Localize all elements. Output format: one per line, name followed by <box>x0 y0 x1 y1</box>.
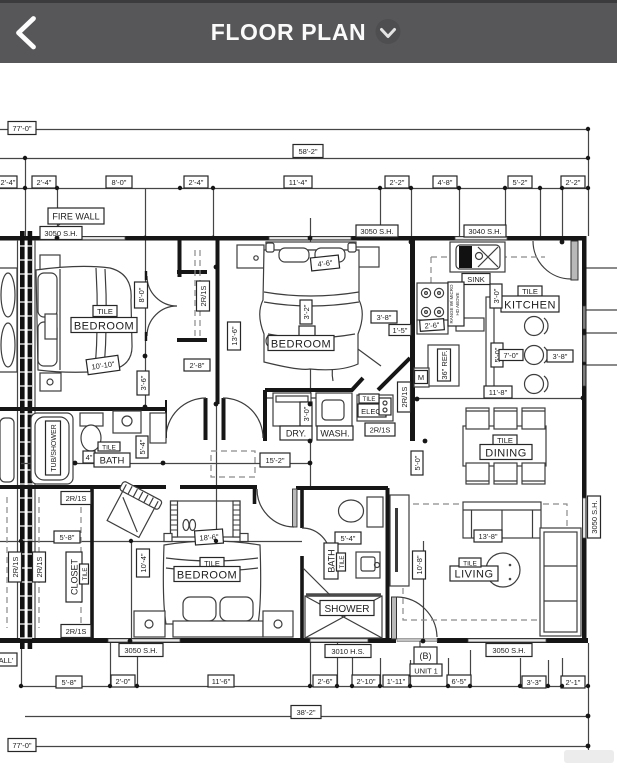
laundry counter <box>267 397 352 399</box>
svg-text:5'-2": 5'-2" <box>513 178 528 187</box>
label 58'-2" top <box>293 145 323 158</box>
svg-text:2R/1S: 2R/1S <box>370 426 391 435</box>
exterior wall right <box>582 236 587 643</box>
svg-text:3'-8": 3'-8" <box>377 313 392 322</box>
bottom dim chain <box>21 686 588 688</box>
bedroom2 bed body <box>260 250 363 370</box>
label 8'-0" vertical <box>135 282 148 308</box>
svg-text:11'-8": 11'-8" <box>489 388 508 397</box>
svg-text:3050 S.H.: 3050 S.H. <box>590 500 599 533</box>
bath1 vanity counter <box>113 411 141 433</box>
svg-text:TILE: TILE <box>102 445 116 452</box>
label 3050 S.H. top-center <box>356 225 398 237</box>
exterior wall bottom left of entry <box>0 638 396 643</box>
hall dashed rug <box>211 451 255 477</box>
label 5'-4" bath2 <box>335 532 361 544</box>
living TV console <box>390 495 409 586</box>
svg-text:BATH: BATH <box>100 456 125 467</box>
bottom drop lines <box>22 643 589 756</box>
label 3'-0" vertical kitchen <box>490 284 502 308</box>
bedroom3 nightstand right <box>263 611 293 637</box>
label 3050 S.H. bottom-right <box>486 644 532 657</box>
closet bedroom3 dashed <box>7 497 81 628</box>
bath1 door jambs <box>206 398 224 440</box>
svg-text:2R/1S: 2R/1S <box>199 286 208 307</box>
svg-text:36" REF.: 36" REF. <box>440 350 449 379</box>
label 5'-8" bottom <box>56 676 82 688</box>
label 13'-8" living <box>474 530 502 542</box>
svg-text:SINK: SINK <box>467 275 485 284</box>
label (B) UNIT 1 <box>410 641 442 676</box>
label CLOSET vertical <box>66 552 82 602</box>
living room tile dashed boundary <box>403 504 567 620</box>
svg-text:5'-8": 5'-8" <box>60 533 75 542</box>
svg-text:77'-0": 77'-0" <box>12 124 31 133</box>
svg-text:TILE: TILE <box>522 287 538 296</box>
window 3050 SH top-left <box>45 237 125 240</box>
dim chain row top <box>0 188 588 190</box>
entry door top right (kitchen) <box>571 241 578 280</box>
label 3'-6" vertical hall1 <box>137 371 149 395</box>
label 10'-8" vertical living <box>413 551 426 579</box>
label TILE bedroom3 <box>200 558 224 569</box>
svg-text:2'-4": 2'-4" <box>1 178 16 187</box>
wall bedroom2 / kitchen <box>410 240 415 441</box>
svg-text:2R/1S: 2R/1S <box>66 494 87 503</box>
svg-text:3'-3": 3'-3" <box>527 678 542 687</box>
label 10'-4" vertical bed3 <box>137 549 150 577</box>
back arrow icon <box>9 14 49 54</box>
svg-text:2'-10": 2'-10" <box>356 677 375 686</box>
svg-text:38'-2": 38'-2" <box>296 708 315 717</box>
label small box bed2 <box>299 326 315 336</box>
bedroom3 nightstand left <box>134 611 165 637</box>
right side tick lines <box>586 268 617 365</box>
label WASH. <box>317 426 353 440</box>
svg-text:CLOSET: CLOSET <box>70 558 80 595</box>
svg-text:3050 S.H.: 3050 S.H. <box>492 646 525 655</box>
bedroom1 nightstand bottom with lamp <box>40 373 61 391</box>
label BEDROOM 2 <box>268 336 334 351</box>
label 18'-6" bed3 <box>195 529 224 545</box>
label 2'-4" c <box>184 176 208 188</box>
svg-text:3'-0": 3'-0" <box>492 288 501 303</box>
label 5'-0" vertical island <box>491 343 503 367</box>
label 3050 S.H. right wall vertical <box>588 496 601 538</box>
svg-text:2R/1S: 2R/1S <box>11 557 20 578</box>
svg-text:UNIT 1: UNIT 1 <box>414 667 438 676</box>
kitchen counter dashed <box>431 257 545 332</box>
svg-text:4": 4" <box>86 453 93 462</box>
label 7'-0" <box>499 350 523 361</box>
svg-text:13'-6": 13'-6" <box>230 326 239 345</box>
bedroom1 nightstand top <box>40 255 60 270</box>
label SINK <box>462 274 490 285</box>
svg-text:BEDROOM: BEDROOM <box>74 321 134 333</box>
label 3'-8" bed2 <box>371 311 397 323</box>
label 11'-8" <box>484 386 512 398</box>
svg-text:ALL': ALL' <box>0 656 14 665</box>
dining chairs top <box>466 408 489 429</box>
label BATH 1 <box>94 453 130 467</box>
label 2R/1S closet3 bottom <box>61 625 91 638</box>
label 2'-6" bottom <box>313 675 337 687</box>
svg-text:2'-2": 2'-2" <box>566 178 581 187</box>
label 5'-8" closet <box>54 531 80 543</box>
label TUB/SHOWER vertical <box>46 421 61 475</box>
bedroom1 bed <box>36 266 132 372</box>
svg-text:8'-0": 8'-0" <box>112 178 127 187</box>
refrigerator <box>428 345 459 386</box>
label 6'-5" bottom <box>447 675 471 687</box>
svg-text:SHOWER: SHOWER <box>325 604 370 615</box>
bedroom2 corner door leaf and arc <box>332 341 381 381</box>
svg-text:TILE: TILE <box>463 561 477 568</box>
bedroom3 TV console <box>171 501 241 537</box>
closet bedroom3 right wall <box>90 489 94 638</box>
label 5'-0" vertical hall <box>411 451 423 475</box>
bedroom2 slippers <box>266 336 272 346</box>
living round table <box>486 553 520 587</box>
svg-text:1'-11": 1'-11" <box>387 677 406 686</box>
wall bedroom2 bottom / laundry top <box>265 378 363 390</box>
svg-text:3'-8": 3'-8" <box>553 352 568 361</box>
living loveseat <box>463 502 541 538</box>
label 38'-2" bottom <box>291 706 321 719</box>
kitchen range burners <box>417 283 448 321</box>
watermark bottom right <box>564 750 614 763</box>
label FIRE WALL with leader <box>44 208 104 237</box>
svg-text:4'-8": 4'-8" <box>438 178 453 187</box>
label KITCHEN <box>501 296 559 312</box>
label 77'-0" bottom <box>8 739 36 752</box>
svg-text:3010 H.S.: 3010 H.S. <box>331 647 364 656</box>
label 2R/1S vertical closet1 <box>197 281 210 311</box>
label TILE bedroom1 <box>93 306 117 317</box>
dim verticals inside plan <box>0 240 424 641</box>
svg-text:TILE: TILE <box>340 556 346 569</box>
kitchen island <box>486 297 494 387</box>
bath2 top wall <box>296 486 388 490</box>
shower pan with X <box>305 596 382 638</box>
kitchen sink counter <box>450 242 505 272</box>
bedroom2 headboard <box>266 242 356 250</box>
svg-text:3040 S.H.: 3040 S.H. <box>468 227 501 236</box>
elec panel <box>357 395 393 421</box>
label TILE living <box>459 558 481 568</box>
svg-text:2R/1S: 2R/1S <box>35 557 44 578</box>
label 2'-10" bottom <box>352 675 380 687</box>
bedroom3 pillows <box>183 597 216 621</box>
label 2R/1S vertical left <box>33 552 46 582</box>
svg-text:2'-4": 2'-4" <box>37 178 52 187</box>
svg-text:2'-0": 2'-0" <box>116 677 131 686</box>
svg-text:2'-1": 2'-1" <box>566 678 581 687</box>
label 3040 S.H. top-right <box>464 225 506 237</box>
label 2'-1" bottom <box>561 676 585 688</box>
kitchen / dining boundary line <box>415 398 583 400</box>
window 3040 SH top-right <box>455 237 507 240</box>
svg-text:(B): (B) <box>420 651 432 661</box>
bedroom2 side rails <box>266 243 274 252</box>
bedroom2 corner door jamb <box>378 358 410 390</box>
bedroom1 bench tray <box>45 314 57 339</box>
svg-text:HD ABOVE: HD ABOVE <box>455 292 460 315</box>
front entry door bottom (unit B) <box>392 597 397 639</box>
hall wall / bath1 bottom, bedroom3 top <box>0 485 166 489</box>
bedroom1 double door leaves <box>147 276 177 336</box>
svg-text:13'-8": 13'-8" <box>478 532 497 541</box>
bath2 right wall (living side) <box>386 488 390 641</box>
label 1'-11" bottom <box>383 675 409 687</box>
svg-text:5'-0": 5'-0" <box>413 455 422 470</box>
svg-text:KITCHEN: KITCHEN <box>504 300 556 312</box>
svg-text:6'-5": 6'-5" <box>452 677 467 686</box>
label 2'-6" kitchen <box>420 319 445 332</box>
svg-text:3'-0": 3'-0" <box>302 406 311 421</box>
bedroom3 chair (rotated) <box>104 481 163 540</box>
dim line 58'-2" top <box>0 158 588 160</box>
svg-text:58'-2": 58'-2" <box>298 147 317 156</box>
label RANGE vertical <box>448 282 464 326</box>
svg-text:3'-2": 3'-2" <box>302 304 311 319</box>
kitchen oven drawer <box>417 320 448 334</box>
bath1 tub <box>31 413 73 484</box>
label 11'-6" bottom <box>208 675 234 687</box>
svg-text:11'-4": 11'-4" <box>289 178 308 187</box>
bedroom1 pillows <box>38 273 57 317</box>
label 2'-4" a <box>0 176 17 188</box>
bedroom2 pillows <box>279 248 309 262</box>
svg-text:2'-4": 2'-4" <box>189 178 204 187</box>
svg-text:3050 S.H.: 3050 S.H. <box>44 229 77 238</box>
dining table <box>463 426 546 466</box>
closet bifold dashed doors <box>195 250 200 336</box>
svg-text:TILE: TILE <box>83 568 89 581</box>
bedroom1 mirror bed fragment (other unit) <box>0 268 17 372</box>
label 3'-3" bottom <box>522 676 546 688</box>
label 10'-10" bedroom1 <box>86 355 120 374</box>
svg-text:DINING: DINING <box>485 448 527 460</box>
label BEDROOM 1 <box>71 318 137 333</box>
wall bedroom2 left <box>216 240 220 404</box>
label 11'-4" <box>284 176 312 188</box>
label 36" REF vertical <box>438 349 451 381</box>
svg-text:8'-0": 8'-0" <box>137 287 146 302</box>
svg-text:15'-2": 15'-2" <box>265 456 284 465</box>
label 2R/1S vertical mirror <box>9 552 22 582</box>
bar stools <box>525 317 549 394</box>
bedroom2 nightstand right <box>355 247 379 267</box>
bath2 toilet <box>339 500 364 522</box>
svg-text:11'-6": 11'-6" <box>212 677 231 686</box>
label 2'-4" b <box>32 176 56 188</box>
label TILE kitchen <box>518 286 542 296</box>
bedroom2 dresser left <box>237 245 264 268</box>
bath2 entry door arc <box>302 528 330 556</box>
mirror unit tub <box>0 418 14 482</box>
laundry closet left wall <box>263 390 267 441</box>
svg-text:BEDROOM: BEDROOM <box>271 339 331 351</box>
label LIVING <box>450 566 498 581</box>
bath1 toilet <box>80 413 103 426</box>
label 2'-0" bottom <box>111 675 135 687</box>
bedroom3 entry door leaf and arc <box>293 489 298 527</box>
svg-text:3050 S.H.: 3050 S.H. <box>360 227 393 236</box>
label 4'-8" <box>433 176 457 188</box>
svg-text:TILE: TILE <box>497 436 513 445</box>
svg-text:BATH: BATH <box>327 549 337 572</box>
label WALL clipped <box>0 653 17 666</box>
laundry door arc <box>223 398 263 438</box>
svg-text:FIRE WALL: FIRE WALL <box>52 212 99 222</box>
dining chairs bottom <box>466 463 489 484</box>
windows right wall <box>583 306 586 329</box>
label BEDROOM 3 <box>174 567 240 582</box>
label 3'-2" vertical bed2 <box>300 300 312 324</box>
window 3050 SH top-center <box>269 237 351 240</box>
window 3010 HS shower <box>310 639 368 642</box>
label BATH 2 vertical <box>324 543 338 579</box>
bath1 sink <box>150 413 166 443</box>
microwave box <box>414 368 429 387</box>
label 3050 S.H. top-left <box>40 227 82 240</box>
label DINING <box>480 445 532 460</box>
label 3010 H.S. bottom <box>325 645 371 658</box>
svg-text:2R/1S: 2R/1S <box>400 387 409 408</box>
svg-text:2'-6": 2'-6" <box>424 320 440 330</box>
app header bar <box>0 0 617 63</box>
fire wall (double party wall) <box>18 231 36 649</box>
label 13'-6" vertical <box>228 322 241 350</box>
svg-text:10'-4": 10'-4" <box>139 553 148 572</box>
label TILE bath1 <box>98 442 120 452</box>
closet nook walls right of bedroom1 <box>178 240 182 277</box>
label 2'-2" b <box>561 176 585 188</box>
label TILE closet vertical <box>80 564 90 584</box>
label 4" bath1 <box>83 451 95 463</box>
svg-text:BEDROOM: BEDROOM <box>177 570 237 582</box>
bath2 vanity <box>356 552 380 578</box>
wall bedroom1 / bath1 <box>21 407 166 411</box>
bath1 door arc <box>166 398 206 438</box>
label 8'-0" <box>106 176 132 188</box>
laundry dryer <box>273 393 311 426</box>
label 2R/1S closet3 top <box>61 492 91 505</box>
svg-text:TILE: TILE <box>97 307 113 316</box>
svg-text:TUB/SHOWER: TUB/SHOWER <box>51 424 58 471</box>
label 5'-4" vertical bath1 <box>136 436 148 458</box>
kitchen base cabinet <box>456 318 484 331</box>
label 2'-8" <box>184 359 210 371</box>
label 3'-8" right <box>547 350 573 362</box>
svg-text:DRY.: DRY. <box>286 429 306 439</box>
svg-text:WASH.: WASH. <box>320 429 349 439</box>
svg-text:5'-4": 5'-4" <box>341 534 356 543</box>
dropdown chevron button <box>374 18 404 48</box>
svg-text:LIVING: LIVING <box>454 569 493 581</box>
dim line 38'-2" bottom <box>25 716 588 718</box>
label 5'-2" <box>508 176 532 188</box>
svg-text:5'-4": 5'-4" <box>138 439 147 454</box>
label DRY. <box>280 426 312 440</box>
label 4'-6" bed2 <box>310 255 339 271</box>
svg-text:2R/1S: 2R/1S <box>66 627 87 636</box>
bedroom3 slippers <box>183 520 189 531</box>
dim drop lines top <box>26 129 589 241</box>
exterior wall top <box>0 236 586 241</box>
label TILE dining <box>493 435 517 445</box>
label 1'-5" <box>389 325 411 336</box>
dim line 77'-0" top <box>0 129 588 131</box>
window 3050 SH bottom-left bedroom <box>108 639 180 642</box>
label 2R/1S laundry <box>365 423 395 436</box>
label 2R/1S vertical elec <box>398 382 411 412</box>
svg-text:2'-6": 2'-6" <box>318 677 333 686</box>
svg-text:4'-6": 4'-6" <box>317 258 333 269</box>
svg-text:2'-8": 2'-8" <box>190 361 205 370</box>
svg-text:2'-2": 2'-2" <box>390 178 405 187</box>
svg-text:1'-5": 1'-5" <box>393 326 408 335</box>
mirror unit walls left edge <box>0 409 20 487</box>
svg-text:77'-0": 77'-0" <box>12 741 31 750</box>
label 77'-0" top <box>8 122 36 135</box>
label TILE bath2 vertical <box>337 553 347 571</box>
laundry washer <box>316 393 352 426</box>
svg-text:M: M <box>418 373 424 382</box>
label TILE elec <box>359 394 379 403</box>
svg-text:7'-0": 7'-0" <box>504 351 519 360</box>
window 3050 SH living <box>468 639 546 642</box>
bedroom3 bed body <box>163 541 260 624</box>
hall dim line <box>21 463 310 465</box>
label 3050 S.H. bottom-left <box>119 644 163 657</box>
label 3'-0" vertical laundry <box>300 402 312 426</box>
svg-text:TILE: TILE <box>363 397 376 403</box>
label SHOWER <box>320 601 374 616</box>
svg-text:3050 S.H.: 3050 S.H. <box>124 646 157 655</box>
label 15'-2" hall <box>260 453 290 467</box>
svg-text:5'-8": 5'-8" <box>62 678 77 687</box>
dim line 77'-0" bottom <box>36 746 588 748</box>
label 2'-2" a <box>385 176 409 188</box>
label ELEC panel <box>358 398 391 417</box>
svg-text:RANGE W/ MICRO: RANGE W/ MICRO <box>449 284 454 323</box>
bedroom3 headboard <box>173 621 263 637</box>
bath2 / shower left wall <box>300 488 304 641</box>
label M <box>415 371 428 384</box>
living sectional sofa <box>540 528 581 636</box>
exterior wall bottom right of entry <box>437 638 588 643</box>
svg-text:10'-8": 10'-8" <box>415 555 424 574</box>
svg-text:3'-6": 3'-6" <box>139 375 148 390</box>
